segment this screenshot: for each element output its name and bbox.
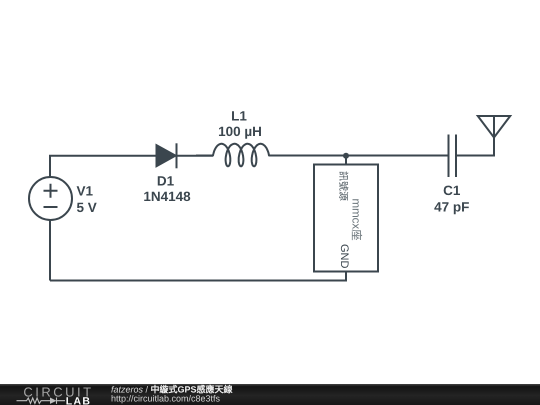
- svg-text:V1: V1: [77, 184, 94, 199]
- svg-text:訊號源: 訊號源: [337, 171, 349, 201]
- subcircuit box mmcx socket: [314, 165, 378, 272]
- svg-text:GND: GND: [338, 244, 350, 269]
- svg-text:100 µH: 100 µH: [218, 124, 262, 139]
- wire stub from node A into box top pin: [345, 156, 347, 166]
- wire from V1 top to top rail corner: [50, 156, 156, 178]
- svg-text:C1: C1: [443, 183, 461, 198]
- wire from V1 bottom to bottom rail: [49, 220, 51, 281]
- capacitor C1: [449, 135, 457, 178]
- svg-text:47 pF: 47 pF: [434, 200, 469, 215]
- voltage source V1: [29, 177, 72, 220]
- svg-text:LAB: LAB: [66, 395, 91, 405]
- wire from capacitor C1 to antenna: [457, 137, 494, 156]
- svg-text:D1: D1: [157, 174, 175, 189]
- wire from inductor to node A: [269, 155, 346, 157]
- inductor L1: [196, 144, 283, 167]
- node A junction dot: [343, 153, 349, 159]
- wire from box bottom pin to bottom rail: [345, 271, 347, 281]
- svg-text:5 V: 5 V: [77, 200, 97, 215]
- wire from diode cathode to inductor: [177, 155, 214, 157]
- svg-text:L1: L1: [231, 109, 247, 124]
- logo schematic: wire resistor diode: [17, 398, 66, 404]
- bottom rail wire: [50, 280, 347, 282]
- diode D1: [156, 143, 177, 168]
- svg-text:mmcx座: mmcx座: [350, 199, 363, 241]
- wire from node A to capacitor C1: [346, 155, 448, 157]
- svg-text:1N4148: 1N4148: [143, 189, 191, 204]
- svg-text:http://circuitlab.com/c8e3tfs: http://circuitlab.com/c8e3tfs: [111, 394, 221, 404]
- antenna AT1: [478, 116, 510, 156]
